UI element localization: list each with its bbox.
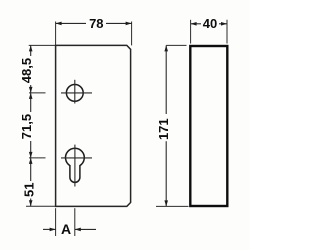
svg-text:171: 171 (156, 118, 171, 140)
svg-text:71,5: 71,5 (19, 114, 34, 139)
svg-text:48,5: 48,5 (19, 58, 34, 83)
svg-text:78: 78 (89, 16, 103, 31)
svg-text:40: 40 (203, 16, 217, 31)
svg-text:A: A (61, 221, 71, 237)
svg-text:51: 51 (22, 183, 37, 197)
